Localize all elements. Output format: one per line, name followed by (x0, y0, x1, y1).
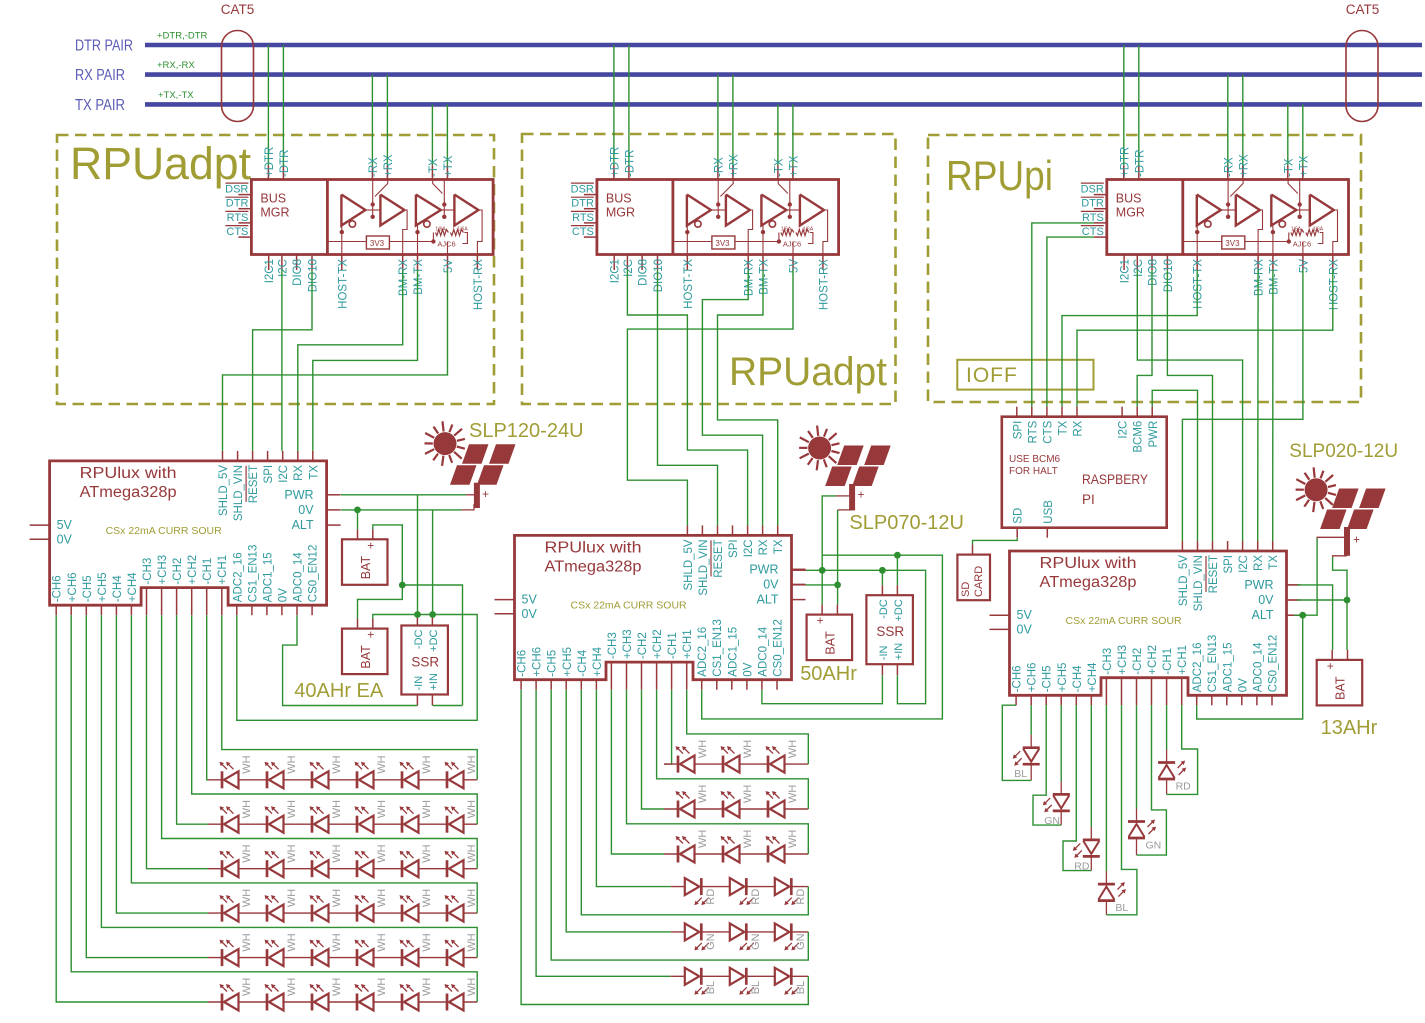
RPULUX1 pin SHLD_5V (222, 451, 224, 461)
wire DIO10 to RPUlux2 RESET (658, 270, 718, 525)
BUSMGR2 pin DTR (584, 208, 597, 210)
battery BAT1 40AHr outline (342, 539, 388, 585)
svg-text:AJC6: AJC6 (1293, 240, 1311, 249)
svg-text:ADC2_16: ADC2_16 (1192, 642, 1204, 692)
svg-text:HOST-TX: HOST-TX (337, 259, 349, 309)
svg-text:I2C1: I2C1 (1120, 259, 1132, 283)
RPULUX3 pin SPI (1227, 541, 1229, 551)
RPULUX2 pin -CH3 (610, 662, 612, 690)
wire array1 row6 LED string (208, 1001, 477, 1003)
BUSMGR1 wire +TX input drop (443, 180, 445, 217)
wire RPi SD to SD CARD (973, 538, 1018, 545)
LED RD (array flipped) (790, 878, 793, 895)
BUSMGR3 wire U3 to U4 link (1296, 209, 1310, 211)
svg-text:+CH3: +CH3 (157, 555, 169, 585)
RPULUX1 pin ADC1_15 (266, 605, 268, 615)
wire array1 row4 LED string (208, 912, 477, 914)
svg-text:0V: 0V (1258, 593, 1274, 607)
svg-text:-CH6: -CH6 (52, 575, 64, 602)
IC RPULUX1 RPUlux with ATmega328p outline (50, 461, 327, 605)
svg-text:DIO8: DIO8 (292, 259, 304, 286)
wire DIO8 to RPi BCM6 (1137, 270, 1152, 407)
BUSMGR2 wire U3 to U4 link (786, 209, 800, 211)
svg-text:-CH4: -CH4 (1072, 665, 1084, 692)
svg-text:-DTR: -DTR (279, 150, 291, 177)
net RX PAIR bus (145, 72, 1422, 77)
RPULUX2 pin -CH4 (580, 680, 582, 690)
svg-text:CARD: CARD (973, 566, 985, 597)
wire +CH4 to LED RD1 (1090, 705, 1092, 827)
svg-text:BL: BL (1115, 902, 1128, 914)
wire BM-RX to RPUlux3 RX (1257, 270, 1259, 541)
LED WH (array) (311, 905, 314, 922)
BUSMGR2 wire +RX diagonal (720, 180, 733, 197)
svg-text:+DTR: +DTR (1119, 147, 1131, 177)
svg-text:ADC2_16: ADC2_16 (232, 552, 244, 602)
LED WH (array) (401, 949, 404, 966)
BUSMGR1 pin BM-RX (402, 255, 404, 271)
svg-text:BM-TX: BM-TX (413, 259, 425, 295)
svg-text:CAT5: CAT5 (221, 2, 255, 17)
svg-text:RX: RX (293, 465, 305, 481)
RPULUX2 pin 5V (left) (495, 599, 515, 601)
RPULUX3 pin CS1_EN13 (1211, 695, 1213, 705)
BUSMGR3 wire -TX diagonal (1288, 180, 1298, 194)
svg-text:BL: BL (750, 981, 762, 994)
svg-text:-TX: -TX (773, 158, 785, 177)
BUSMGR2 pin +RX (732, 166, 734, 180)
BUSMGR1 pin DIO10 (311, 255, 313, 271)
LED WH (array) (722, 846, 725, 863)
svg-text:TX: TX (308, 465, 320, 480)
junction 0V solar-/BAT4- (1344, 597, 1351, 604)
BAT2 40AHr pin - terminal (357, 619, 359, 629)
svg-text:WH: WH (787, 740, 799, 758)
BUSMGR3 pin 5V (1302, 255, 1304, 271)
RPi pin CTS (1046, 407, 1048, 417)
svg-text:0V: 0V (742, 662, 754, 676)
BUSMGR1 pin DIO8 (296, 255, 298, 271)
svg-text:WH: WH (466, 755, 478, 773)
RPULUX2 pin +CH1 (686, 662, 688, 690)
RPi pin SD (1016, 528, 1018, 538)
BUSMGR1 buffer amplifier U2 (380, 195, 404, 226)
LED WH (array) (767, 801, 770, 818)
svg-text:+CH5: +CH5 (1057, 663, 1069, 693)
BUSMGR3 pin I2C (1136, 255, 1138, 271)
svg-text:0V: 0V (57, 532, 73, 546)
svg-text:CS0_EN12: CS0_EN12 (773, 619, 785, 677)
svg-text:ALT: ALT (292, 518, 314, 532)
BUSMGR3 wire HOST-TX drop from U1 (1196, 224, 1198, 255)
svg-text:SHLD_VIN: SHLD_VIN (233, 465, 245, 521)
LED WH (array) (356, 816, 359, 833)
svg-text:WH: WH (466, 800, 478, 818)
wire block1 +DTR bus drop (267, 45, 269, 166)
wire -CH1 feed row1 array1 (207, 615, 208, 780)
svg-text:CSx 22mA CURR SOUR: CSx 22mA CURR SOUR (571, 599, 688, 611)
RPULUX2 pin TX (777, 525, 779, 535)
BUSMGR3 wire HOST-RX drop from U4 output (1333, 210, 1338, 255)
RPULUX1 pin +CH5 (100, 605, 102, 615)
svg-text:ATmega328p: ATmega328p (80, 484, 177, 501)
BUSMGR2 wire U1 to U2 link (711, 209, 726, 211)
RPULUX2 pin RESET (717, 525, 719, 535)
svg-text:USB: USB (1043, 500, 1055, 524)
BAT1 40AHr pin - terminal (357, 529, 359, 539)
svg-text:+TX,-TX: +TX,-TX (158, 90, 194, 101)
RPULUX3 pin -CH4 (1075, 695, 1077, 705)
LED WH (array) (311, 816, 314, 833)
RPULUX1 pin +CH6 (70, 605, 72, 615)
LED WH (array) (221, 860, 224, 877)
svg-text:PWR: PWR (1244, 578, 1273, 592)
LED WH (array) (356, 771, 359, 788)
module boundary RPUadpt #1 (dashed) (57, 135, 494, 404)
svg-text:WH: WH (697, 830, 709, 848)
wire block3 +DTR bus drop (1123, 45, 1125, 166)
wire SSR1 +IN link (433, 705, 463, 707)
BUSMGR1 pin -TX (431, 166, 433, 180)
svg-text:DSR: DSR (1081, 184, 1104, 196)
svg-text:TX: TX (1268, 555, 1280, 570)
svg-text:+CH1: +CH1 (682, 629, 694, 659)
wire -CH2 feed row2 array2 (642, 690, 665, 809)
svg-text:PI: PI (1082, 492, 1095, 507)
BUSMGR3 pin DIO8 (1151, 255, 1153, 271)
RPULUX1 pin +CH2 (191, 588, 193, 616)
BAT3 50AHr pin - terminal (836, 605, 838, 615)
svg-text:CS1_EN13: CS1_EN13 (247, 545, 259, 603)
wire HOST-TX to RPi TX (1062, 270, 1197, 407)
svg-text:WH: WH (241, 800, 253, 818)
wire LED GN1 return to -CH5 (1060, 811, 1062, 825)
RPULUX3 pin +CH5 (1060, 695, 1062, 705)
svg-text:-IN: -IN (878, 645, 890, 660)
svg-text:WH: WH (331, 933, 343, 951)
SSR2 pin -IN (881, 664, 883, 675)
SSR1 pin -DC (416, 616, 418, 626)
svg-text:RD: RD (795, 889, 807, 905)
svg-text:SPI: SPI (1012, 421, 1024, 440)
RPULUX2 pin RX (762, 525, 764, 535)
BUSMGR3 bias rail (1183, 241, 1222, 243)
svg-text:+DTR,-DTR: +DTR,-DTR (157, 31, 208, 42)
RPULUX3 pin I2C (1242, 541, 1244, 551)
wire RPUlux3 PWR to BAT4 + (1287, 584, 1298, 586)
RPULUX1 pin -CH3 (146, 588, 148, 616)
BUSMGR1 5V rail drop (447, 242, 449, 255)
BUSMGR1 wire -TX diagonal (433, 180, 443, 194)
BUSMGR1 wire BM-RX drop from U2 output (403, 210, 407, 255)
svg-text:+CH2: +CH2 (652, 629, 664, 659)
svg-text:I2C1: I2C1 (264, 259, 276, 283)
svg-text:WH: WH (787, 785, 799, 803)
wire array2 row5 LED string (671, 931, 809, 933)
svg-text:WH: WH (241, 889, 253, 907)
svg-text:WH: WH (466, 889, 478, 907)
LED WH (array) (446, 994, 449, 1011)
wire block1 -DTR bus drop (282, 45, 284, 166)
junction PWR-BAT3+ (819, 567, 826, 574)
wire DIO10 to RPUlux1 RESET (253, 270, 312, 451)
LED WH (array) (401, 860, 404, 877)
RPULUX3 pin ADC0_14 (1256, 695, 1258, 705)
wire +CH5 feed row5 array2 (566, 690, 671, 932)
svg-text:+IN: +IN (428, 673, 440, 690)
LED WH (array) (722, 756, 725, 773)
RPULUX3 pin SHLD_VIN (1197, 541, 1199, 551)
svg-text:1/6A: 1/6A (781, 227, 792, 233)
svg-text:1/6A: 1/6A (1313, 227, 1324, 233)
svg-text:CAT5: CAT5 (1346, 2, 1380, 17)
svg-text:BAT: BAT (1334, 676, 1348, 700)
wire +CH2 return row2 array2 (657, 690, 809, 809)
RPULUX2 pin -CH5 (550, 680, 552, 690)
BUSMGR2 pin I2C (626, 255, 628, 271)
wire -CH2 to LED GN2 (1136, 705, 1138, 808)
svg-text:WH: WH (241, 933, 253, 951)
wire I2C to RPUlux3 I2C (1137, 270, 1242, 541)
svg-text:RPUlux with: RPUlux with (1040, 555, 1137, 572)
svg-text:RPUlux with: RPUlux with (80, 465, 177, 482)
BUSMGR1 internal divider (326, 180, 329, 255)
BUSMGR2 pin -DTR (628, 166, 630, 180)
svg-text:ALT: ALT (1252, 608, 1274, 622)
svg-text:RPUpi: RPUpi (946, 152, 1053, 199)
RPi pin RX (1076, 407, 1078, 417)
wire block2 -DTR bus drop (628, 45, 630, 166)
svg-text:0V: 0V (1017, 622, 1033, 636)
BUSMGR1 pin HOST-TX (341, 255, 343, 271)
svg-text:5V: 5V (789, 259, 801, 273)
wire BM-TX to RPUlux2 TX (718, 270, 778, 525)
BUSMGR3 wire U1 to U2 link (1221, 209, 1236, 211)
LED WH (array) (221, 816, 224, 833)
LED WH (array) (722, 801, 725, 818)
connector CAT5 left cable oval (222, 31, 254, 122)
svg-text:DTR: DTR (571, 198, 594, 210)
BUSMGR2 pin I2C1 (613, 255, 615, 271)
wire RPUlux2 PWR run (792, 569, 807, 571)
wire -CH6 return row6 array2 (521, 690, 808, 1005)
BUSMGR1 pin +TX (446, 166, 448, 180)
LED WH (array) (311, 771, 314, 788)
svg-text:WH: WH (376, 889, 388, 907)
svg-text:MGR: MGR (1116, 206, 1145, 220)
svg-text:RASPBERY: RASPBERY (1082, 472, 1148, 487)
BUSMGR3 wire BM-RX drop from U2 output (1258, 210, 1262, 255)
wire +CH6 to LED BL1 (1030, 705, 1032, 734)
svg-text:FOR HALT: FOR HALT (1009, 466, 1058, 477)
svg-text:RD: RD (705, 889, 717, 905)
svg-text:DIO10: DIO10 (1163, 259, 1175, 292)
LED WH (array) (401, 816, 404, 833)
wire +CH1 return row1 array1 (222, 615, 477, 780)
LED WH (array) (266, 905, 269, 922)
wire RPUlux1 0V run (341, 509, 462, 511)
wire array2 row4 LED string (671, 886, 809, 888)
svg-text:BUS: BUS (260, 192, 286, 206)
svg-text:+CH5: +CH5 (97, 572, 109, 602)
svg-text:-TX: -TX (428, 158, 440, 177)
svg-text:1/6A: 1/6A (803, 227, 814, 233)
svg-text:WH: WH (466, 978, 478, 996)
svg-text:-DC: -DC (878, 599, 890, 619)
svg-text:5V: 5V (1017, 608, 1033, 622)
LED BL (array flipped) (790, 968, 793, 985)
wire BM-RX to RPUlux2 RX (702, 270, 762, 525)
wire +CH4 return row4 array1 (131, 615, 477, 913)
RPULUX3 pin RESET (1212, 541, 1214, 551)
wire HOST-RX to RPi RX (1077, 270, 1333, 407)
svg-text:0V: 0V (277, 588, 289, 602)
wire +CH1 return row1 array2 (687, 690, 809, 764)
svg-text:RESET: RESET (1208, 555, 1220, 593)
RPULUX1 pin 0V (327, 509, 341, 511)
svg-text:DTR: DTR (1081, 198, 1104, 210)
svg-text:BM-RX: BM-RX (744, 259, 756, 296)
BUSMGR3 pin HOST-TX (1196, 255, 1198, 271)
RPULUX1 pin CS0_EN12 (311, 605, 313, 615)
RPULUX2 pin 0V (746, 680, 748, 690)
svg-text:BUS: BUS (606, 192, 632, 206)
svg-text:ADC2_16: ADC2_16 (697, 627, 709, 677)
wire +CH2 return row2 array1 (192, 615, 478, 824)
BUSMGR3 pin BM-RX (1257, 255, 1259, 271)
svg-text:WH: WH (742, 740, 754, 758)
svg-text:-RX: -RX (1223, 157, 1235, 177)
svg-text:-CH1: -CH1 (202, 558, 214, 585)
BUSMGR3 pin HOST-RX (1332, 255, 1334, 271)
svg-text:IOFF: IOFF (966, 364, 1018, 387)
RPULUX1 pin +CH4 (130, 605, 132, 615)
wire RPUlux1 PWR to SLP120 + (341, 494, 466, 496)
svg-text:DTR: DTR (226, 198, 249, 210)
SSR2 pin +IN (896, 664, 898, 675)
RPULUX2 pin ALT (792, 599, 806, 601)
svg-text:DIO8: DIO8 (1148, 259, 1160, 286)
RPULUX1 pin TX (312, 451, 314, 461)
BUSMGR2 pin CTS (584, 236, 597, 238)
svg-text:SLP020-12U: SLP020-12U (1289, 441, 1398, 462)
wire +CH3 return row3 array1 (162, 615, 478, 869)
RPULUX1 pin -CH5 (85, 605, 87, 615)
wire 5V to RPUlux3 SHLD_5V (1182, 270, 1303, 541)
svg-text:SLP120-24U: SLP120-24U (469, 420, 584, 442)
LED GN (array flipped) (745, 923, 748, 940)
svg-text:ADC0_14: ADC0_14 (757, 626, 769, 676)
svg-text:WH: WH (286, 755, 298, 773)
svg-text:5V: 5V (1298, 259, 1310, 273)
wire RTS to RPi RTS (1032, 223, 1094, 407)
svg-text:-TX: -TX (1283, 158, 1295, 177)
LED RD (array flipped) (745, 878, 748, 895)
svg-text:WH: WH (331, 978, 343, 996)
svg-text:I2C: I2C (1133, 259, 1145, 277)
RPULUX3 pin ADC1_15 (1226, 695, 1228, 705)
svg-text:WH: WH (697, 740, 709, 758)
BUSMGR1 pin CTS (238, 236, 251, 238)
SSR1 pin -IN (416, 695, 418, 706)
svg-text:WH: WH (466, 933, 478, 951)
svg-text:ADC1_15: ADC1_15 (727, 627, 739, 677)
svg-text:BAT: BAT (359, 645, 373, 669)
svg-text:USE BCM6: USE BCM6 (1009, 454, 1061, 465)
RPULUX1 pin RESET (252, 451, 254, 461)
BUSMGR2 internal divider (672, 180, 675, 255)
svg-text:+CH4: +CH4 (127, 572, 139, 602)
svg-text:-DTR: -DTR (624, 150, 636, 177)
BUSMGR3 pin DIO10 (1166, 255, 1168, 271)
LED WH (array) (311, 994, 314, 1011)
solar panel SLP020-12U sun icon (1305, 478, 1328, 501)
BUSMGR1 pin +DTR (267, 166, 269, 180)
svg-text:ADC1_15: ADC1_15 (1222, 642, 1234, 692)
BUSMGR1 wire U3 to U4 link (441, 209, 455, 211)
BUSMGR2 pin DIO8 (641, 255, 643, 271)
svg-text:+CH5: +CH5 (562, 647, 574, 677)
net DTR PAIR bus (145, 43, 1422, 48)
wire LED GN2 return to +CH2 (1136, 838, 1138, 855)
BUSMGR2 pin +DTR (613, 166, 615, 180)
svg-text:+: + (367, 538, 374, 552)
BUSMGR1 pin DTR (238, 208, 251, 210)
svg-text:BM-TX: BM-TX (759, 259, 771, 295)
svg-text:GN: GN (795, 933, 807, 950)
svg-text:SHLD_5V: SHLD_5V (1178, 555, 1190, 606)
RPULUX3 pin -CH3 (1105, 678, 1107, 706)
wire array1 row3 LED string (208, 868, 477, 870)
LED GN (single, cathode up) (1128, 820, 1145, 823)
RPULUX3 pin ADC2_16 (1196, 695, 1198, 705)
RPi pin BCM6 (1136, 407, 1138, 417)
svg-text:BM-TX: BM-TX (1268, 259, 1280, 295)
LED BL (single, cathode down) (1023, 746, 1040, 749)
svg-text:DIO8: DIO8 (638, 259, 650, 286)
BAT3 50AHr pin + terminal (821, 605, 823, 615)
LED WH (array) (401, 994, 404, 1011)
RPULUX2 pin +CH5 (565, 680, 567, 690)
RPULUX1 pin SPI (267, 451, 269, 461)
BUSMGR1 pin 5V (447, 255, 449, 271)
svg-text:HOST-TX: HOST-TX (1193, 259, 1205, 309)
wire array1 row1 LED string (208, 779, 477, 781)
wire 0V to SSR1 +DC (432, 510, 434, 615)
svg-text:-CH2: -CH2 (172, 558, 184, 585)
svg-text:MGR: MGR (606, 206, 635, 220)
wire BAT1 + net (373, 525, 403, 585)
wire BM-TX to RPUlux1 TX (313, 270, 418, 451)
svg-text:+CH1: +CH1 (217, 555, 229, 585)
svg-text:+RX: +RX (728, 154, 740, 177)
BUSMGR2 pin HOST-TX (686, 255, 688, 271)
svg-text:WH: WH (331, 844, 343, 862)
wire -CH5 return row5 array2 (551, 690, 808, 960)
svg-text:WH: WH (421, 800, 433, 818)
RPULUX3 pin +CH3 (1121, 678, 1123, 706)
svg-text:-DTR: -DTR (1134, 150, 1146, 177)
BAT4 13AHr pin + terminal (1331, 650, 1333, 660)
wire array2 row3 LED string (664, 853, 808, 855)
svg-text:SPI: SPI (728, 539, 740, 558)
wire 0V to SLP020 - (1333, 557, 1347, 600)
LED WH (array) (266, 860, 269, 877)
RPi pin TX (1061, 407, 1063, 417)
wire block1 +TX bus drop (446, 104, 448, 165)
BUSMGR2 pin RTS (584, 222, 597, 224)
IC BUSMGR2 BUS MGR block outline (597, 180, 839, 255)
